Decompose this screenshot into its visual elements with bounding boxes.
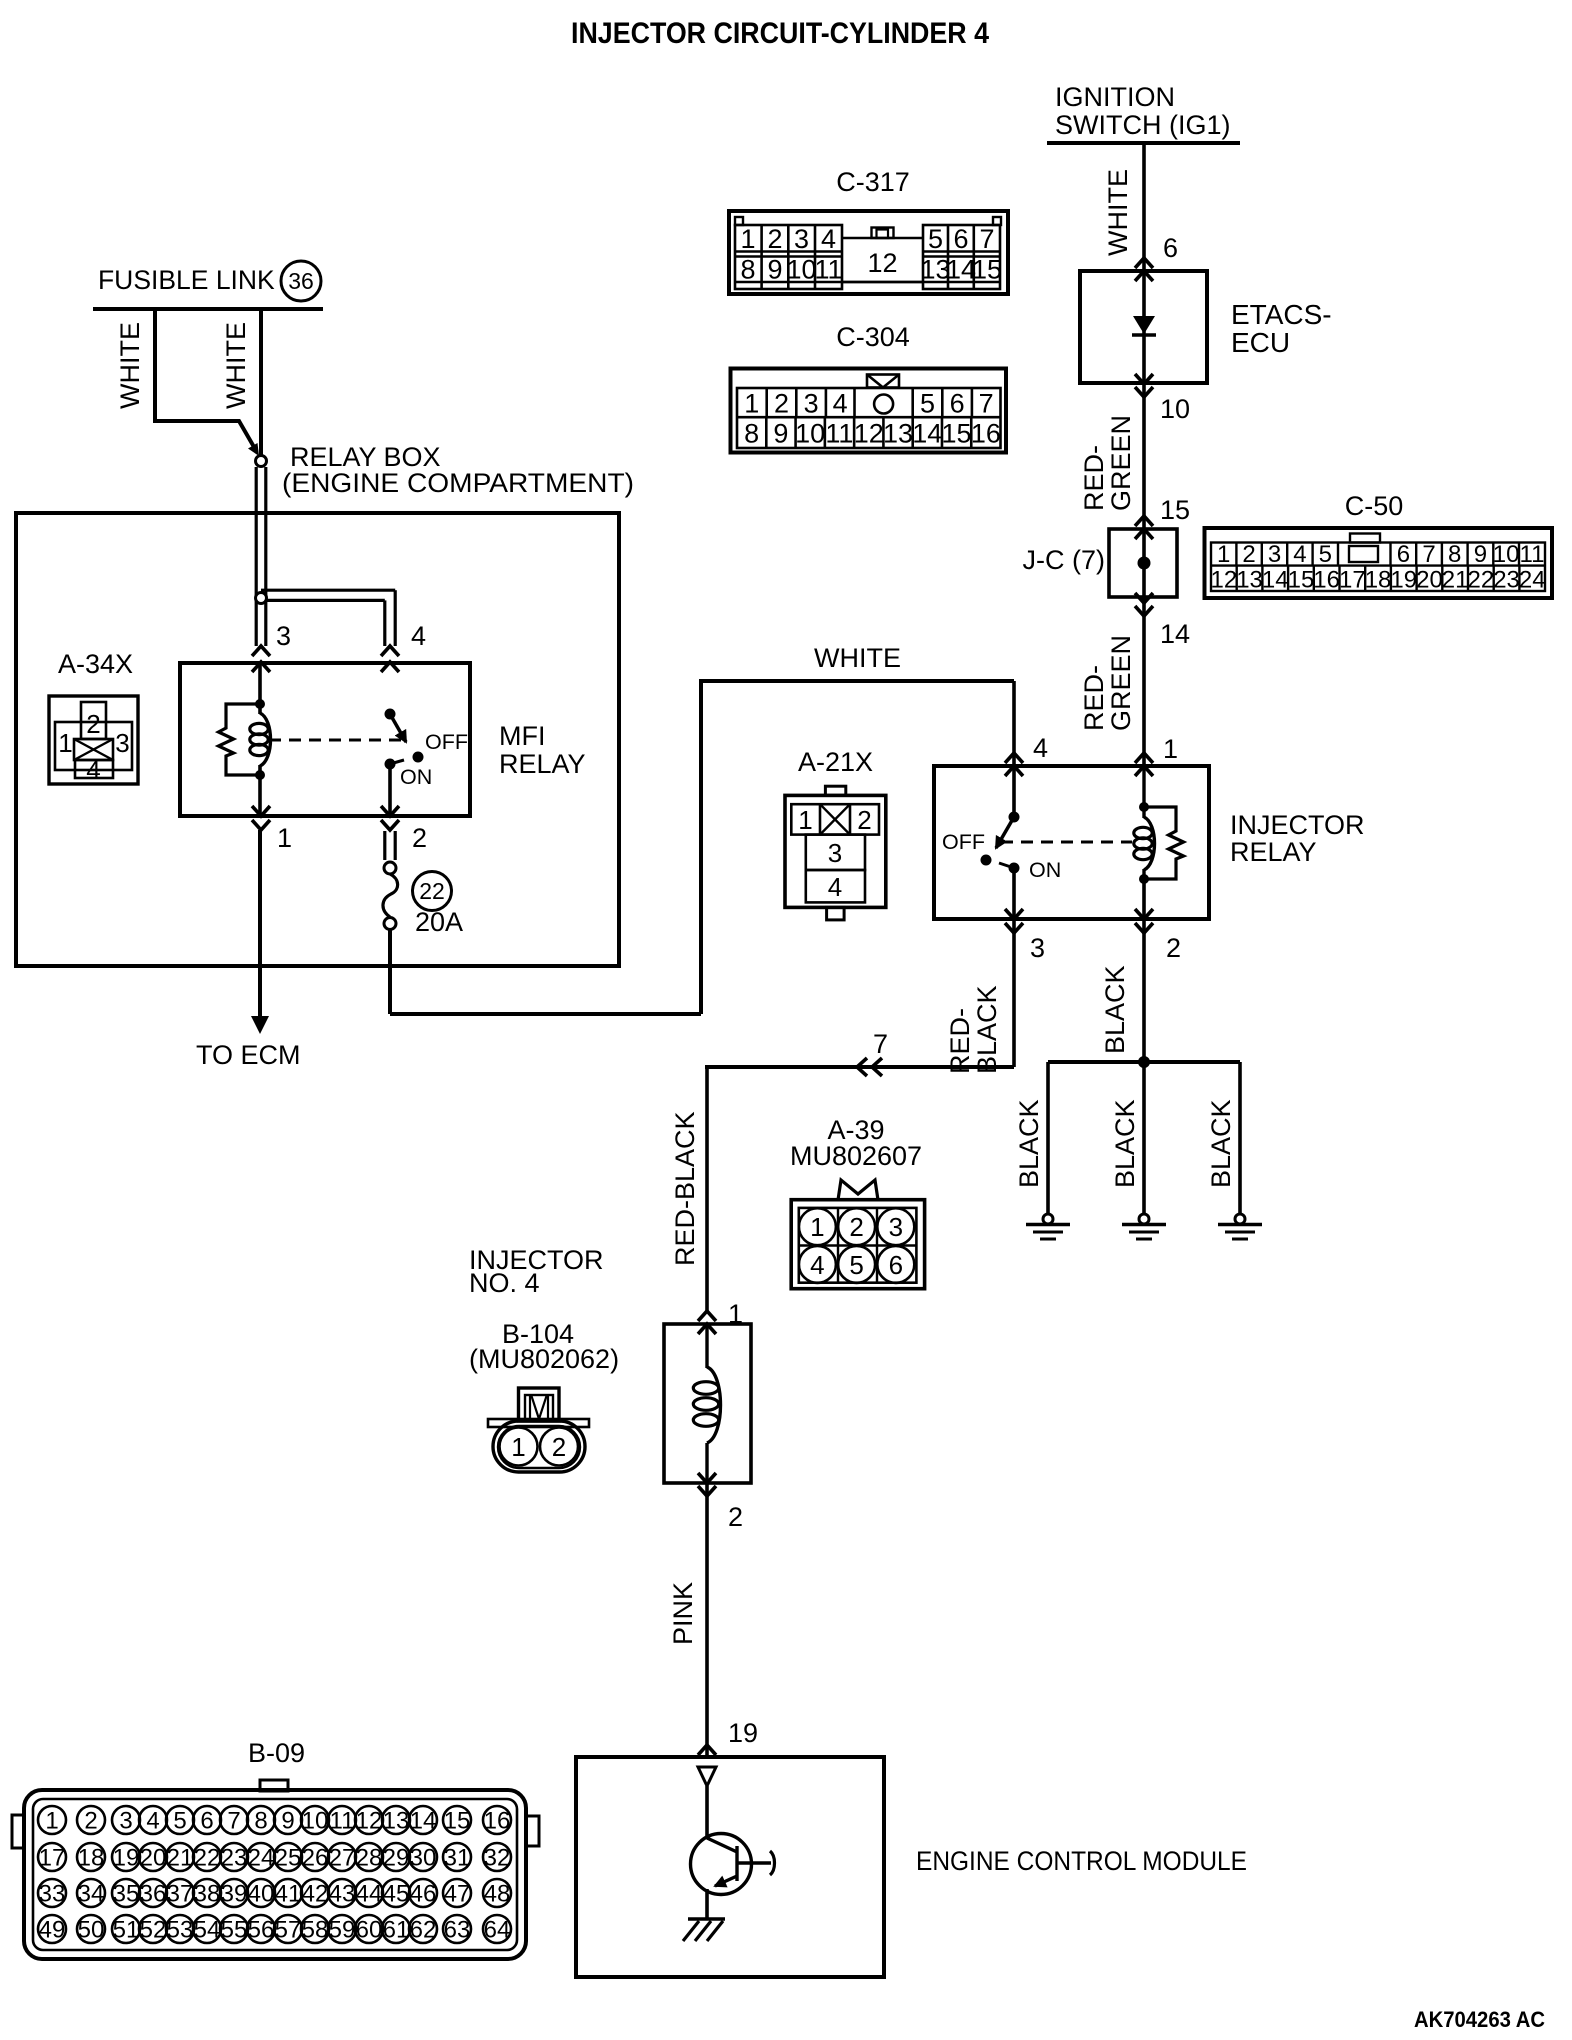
svg-text:ETACS-: ETACS- — [1231, 299, 1332, 330]
svg-text:NO. 4: NO. 4 — [469, 1268, 540, 1298]
svg-text:33: 33 — [39, 1881, 66, 1908]
svg-text:32: 32 — [484, 1845, 511, 1872]
svg-text:63: 63 — [444, 1917, 471, 1944]
svg-text:3: 3 — [1030, 933, 1045, 963]
svg-text:4: 4 — [146, 1808, 159, 1835]
svg-text:14: 14 — [1262, 567, 1289, 594]
svg-text:TO ECM: TO ECM — [196, 1040, 301, 1070]
svg-text:AK704263 AC: AK704263 AC — [1414, 2007, 1545, 2032]
svg-text:3: 3 — [1268, 541, 1281, 568]
svg-text:16: 16 — [484, 1808, 511, 1835]
svg-text:WHITE: WHITE — [115, 322, 145, 409]
svg-text:64: 64 — [484, 1917, 511, 1944]
svg-text:16: 16 — [971, 419, 1001, 449]
svg-text:FUSIBLE LINK: FUSIBLE LINK — [98, 265, 275, 295]
svg-text:1: 1 — [1217, 541, 1230, 568]
svg-text:43: 43 — [329, 1881, 356, 1908]
svg-text:1: 1 — [45, 1808, 58, 1835]
svg-text:2: 2 — [84, 1808, 97, 1835]
svg-text:8: 8 — [740, 255, 755, 285]
svg-text:2: 2 — [767, 224, 782, 254]
svg-text:4: 4 — [1293, 541, 1306, 568]
svg-text:ON: ON — [1029, 858, 1061, 882]
svg-text:18: 18 — [1365, 567, 1392, 594]
svg-text:3: 3 — [115, 728, 129, 758]
svg-text:WHITE: WHITE — [221, 322, 251, 409]
svg-text:J-C (7): J-C (7) — [1023, 545, 1106, 575]
svg-text:RELAY: RELAY — [1230, 837, 1317, 867]
svg-text:3: 3 — [828, 838, 842, 868]
svg-text:6: 6 — [200, 1808, 213, 1835]
svg-text:48: 48 — [484, 1881, 511, 1908]
svg-text:24: 24 — [248, 1845, 275, 1872]
svg-text:4: 4 — [833, 389, 848, 419]
svg-text:23: 23 — [1493, 567, 1520, 594]
svg-text:8: 8 — [254, 1808, 267, 1835]
svg-text:21: 21 — [167, 1845, 194, 1872]
svg-text:WHITE: WHITE — [1103, 169, 1133, 256]
svg-text:35: 35 — [113, 1881, 140, 1908]
svg-text:13: 13 — [1236, 567, 1263, 594]
svg-text:12: 12 — [1210, 567, 1237, 594]
svg-text:14: 14 — [912, 419, 942, 449]
svg-text:15: 15 — [972, 255, 1002, 285]
svg-text:44: 44 — [356, 1881, 383, 1908]
svg-text:(MU802062): (MU802062) — [469, 1344, 619, 1374]
svg-text:7: 7 — [1422, 541, 1435, 568]
svg-text:A-21X: A-21X — [798, 747, 873, 777]
svg-text:1: 1 — [810, 1212, 824, 1242]
svg-text:WHITE: WHITE — [814, 643, 901, 673]
svg-text:3: 3 — [119, 1808, 132, 1835]
svg-text:59: 59 — [329, 1917, 356, 1944]
svg-text:18: 18 — [78, 1845, 105, 1872]
svg-text:OFF: OFF — [425, 730, 468, 754]
svg-text:47: 47 — [444, 1881, 471, 1908]
svg-text:1: 1 — [744, 389, 759, 419]
svg-text:61: 61 — [383, 1917, 410, 1944]
svg-text:6: 6 — [1397, 541, 1410, 568]
svg-text:ECU: ECU — [1231, 327, 1290, 358]
svg-text:9: 9 — [773, 419, 788, 449]
svg-text:C-50: C-50 — [1345, 491, 1404, 521]
svg-text:1: 1 — [277, 823, 292, 853]
svg-text:SWITCH (IG1): SWITCH (IG1) — [1055, 110, 1231, 140]
svg-text:22: 22 — [419, 878, 445, 904]
svg-text:60: 60 — [356, 1917, 383, 1944]
svg-text:36: 36 — [140, 1881, 167, 1908]
svg-text:GREEN: GREEN — [1106, 635, 1136, 731]
svg-text:19: 19 — [113, 1845, 140, 1872]
svg-text:15: 15 — [444, 1808, 471, 1835]
svg-text:BLACK: BLACK — [1100, 965, 1130, 1054]
svg-text:38: 38 — [194, 1881, 221, 1908]
svg-text:RELAY: RELAY — [499, 749, 586, 779]
svg-text:2: 2 — [774, 389, 789, 419]
svg-text:41: 41 — [275, 1881, 302, 1908]
svg-text:46: 46 — [410, 1881, 437, 1908]
svg-text:5: 5 — [928, 224, 943, 254]
svg-text:IGNITION: IGNITION — [1055, 82, 1175, 112]
svg-text:INJECTOR: INJECTOR — [1230, 810, 1365, 840]
svg-text:RED-: RED- — [1079, 445, 1109, 511]
svg-text:28: 28 — [356, 1845, 383, 1872]
svg-text:4: 4 — [828, 872, 842, 902]
svg-text:ON: ON — [400, 765, 432, 789]
svg-text:20: 20 — [140, 1845, 167, 1872]
svg-text:6: 6 — [953, 224, 968, 254]
svg-text:4: 4 — [411, 621, 426, 651]
svg-text:5: 5 — [920, 389, 935, 419]
svg-text:13: 13 — [383, 1808, 410, 1835]
svg-text:3: 3 — [889, 1212, 903, 1242]
svg-text:7: 7 — [873, 1029, 888, 1059]
svg-text:53: 53 — [167, 1917, 194, 1944]
svg-text:21: 21 — [1442, 567, 1469, 594]
svg-text:11: 11 — [825, 419, 853, 449]
svg-text:16: 16 — [1313, 567, 1340, 594]
svg-text:49: 49 — [39, 1917, 66, 1944]
svg-text:6: 6 — [889, 1250, 903, 1280]
svg-text:BLACK: BLACK — [1206, 1099, 1236, 1188]
svg-text:GREEN: GREEN — [1106, 415, 1136, 511]
svg-text:14: 14 — [1160, 619, 1190, 649]
svg-text:BLACK: BLACK — [1014, 1099, 1044, 1188]
svg-text:51: 51 — [113, 1917, 140, 1944]
svg-text:4: 4 — [1033, 733, 1048, 763]
svg-text:PINK: PINK — [668, 1582, 698, 1645]
svg-text:2: 2 — [552, 1432, 566, 1462]
svg-text:OFF: OFF — [942, 830, 985, 854]
svg-text:19: 19 — [1390, 567, 1417, 594]
svg-text:BLACK: BLACK — [972, 985, 1002, 1074]
svg-text:62: 62 — [410, 1917, 437, 1944]
svg-text:20A: 20A — [415, 907, 463, 937]
svg-text:1: 1 — [798, 805, 812, 835]
svg-text:RED-: RED- — [945, 1008, 975, 1074]
svg-text:20: 20 — [1416, 567, 1443, 594]
svg-text:25: 25 — [275, 1845, 302, 1872]
svg-text:MU802607: MU802607 — [790, 1141, 922, 1171]
svg-text:10: 10 — [302, 1808, 329, 1835]
svg-text:15: 15 — [1288, 567, 1315, 594]
svg-text:30: 30 — [410, 1845, 437, 1872]
svg-text:RED-: RED- — [1079, 665, 1109, 731]
svg-text:15: 15 — [942, 419, 972, 449]
svg-text:4: 4 — [810, 1250, 824, 1280]
svg-text:12: 12 — [867, 248, 897, 278]
svg-text:2: 2 — [86, 709, 100, 739]
svg-text:54: 54 — [194, 1917, 221, 1944]
svg-text:10: 10 — [1160, 394, 1190, 424]
svg-text:4: 4 — [86, 755, 100, 785]
svg-text:37: 37 — [167, 1881, 194, 1908]
svg-text:2: 2 — [1166, 933, 1181, 963]
svg-text:17: 17 — [1339, 567, 1366, 594]
svg-text:11: 11 — [814, 255, 842, 285]
svg-text:A-34X: A-34X — [58, 649, 133, 679]
svg-text:40: 40 — [248, 1881, 275, 1908]
svg-text:45: 45 — [383, 1881, 410, 1908]
svg-text:B-09: B-09 — [248, 1738, 305, 1768]
svg-text:11: 11 — [1520, 541, 1545, 568]
svg-text:13: 13 — [883, 419, 913, 449]
svg-text:1: 1 — [740, 224, 755, 254]
svg-text:55: 55 — [221, 1917, 248, 1944]
svg-text:5: 5 — [849, 1250, 863, 1280]
svg-text:5: 5 — [1319, 541, 1332, 568]
svg-text:19: 19 — [728, 1718, 758, 1748]
svg-text:17: 17 — [39, 1845, 66, 1872]
svg-text:52: 52 — [140, 1917, 167, 1944]
svg-text:MFI: MFI — [499, 721, 546, 751]
svg-text:34: 34 — [78, 1881, 105, 1908]
svg-text:INJECTOR CIRCUIT-CYLINDER 4: INJECTOR CIRCUIT-CYLINDER 4 — [571, 17, 989, 50]
svg-text:2: 2 — [728, 1502, 743, 1532]
svg-text:12: 12 — [356, 1808, 383, 1835]
svg-text:50: 50 — [78, 1917, 105, 1944]
svg-text:6: 6 — [1163, 233, 1178, 263]
svg-text:2: 2 — [849, 1212, 863, 1242]
svg-text:26: 26 — [302, 1845, 329, 1872]
svg-text:57: 57 — [275, 1917, 302, 1944]
svg-text:56: 56 — [248, 1917, 275, 1944]
svg-text:9: 9 — [1474, 541, 1487, 568]
svg-text:1: 1 — [58, 728, 72, 758]
svg-text:7: 7 — [979, 224, 994, 254]
svg-text:2: 2 — [857, 805, 871, 835]
svg-text:27: 27 — [329, 1845, 356, 1872]
svg-text:14: 14 — [410, 1808, 437, 1835]
svg-text:C-304: C-304 — [836, 322, 910, 352]
svg-text:2: 2 — [412, 823, 427, 853]
svg-text:8: 8 — [744, 419, 759, 449]
svg-text:22: 22 — [194, 1845, 221, 1872]
svg-text:6: 6 — [950, 389, 965, 419]
svg-text:5: 5 — [173, 1808, 186, 1835]
svg-text:15: 15 — [1160, 495, 1190, 525]
svg-text:BLACK: BLACK — [1110, 1099, 1140, 1188]
svg-text:C-317: C-317 — [836, 167, 910, 197]
svg-text:24: 24 — [1519, 567, 1546, 594]
svg-text:58: 58 — [302, 1917, 329, 1944]
svg-text:3: 3 — [804, 389, 819, 419]
svg-text:29: 29 — [383, 1845, 410, 1872]
svg-text:7: 7 — [227, 1808, 240, 1835]
svg-text:9: 9 — [767, 255, 782, 285]
svg-text:7: 7 — [979, 389, 994, 419]
svg-text:11: 11 — [330, 1808, 355, 1835]
svg-text:36: 36 — [288, 268, 314, 294]
svg-text:10: 10 — [786, 255, 816, 285]
svg-text:ENGINE CONTROL MODULE: ENGINE CONTROL MODULE — [916, 1846, 1247, 1876]
svg-text:12: 12 — [854, 419, 884, 449]
svg-text:31: 31 — [444, 1845, 471, 1872]
svg-text:3: 3 — [276, 621, 291, 651]
svg-text:1: 1 — [511, 1432, 525, 1462]
svg-text:(ENGINE COMPARTMENT): (ENGINE COMPARTMENT) — [282, 468, 634, 498]
svg-text:3: 3 — [794, 224, 809, 254]
svg-text:10: 10 — [1493, 541, 1520, 568]
svg-text:RED-BLACK: RED-BLACK — [670, 1111, 700, 1266]
svg-text:1: 1 — [1163, 734, 1178, 764]
svg-text:2: 2 — [1242, 541, 1255, 568]
svg-text:39: 39 — [221, 1881, 248, 1908]
svg-text:42: 42 — [302, 1881, 329, 1908]
svg-text:22: 22 — [1467, 567, 1494, 594]
svg-text:4: 4 — [821, 224, 836, 254]
svg-text:10: 10 — [795, 419, 825, 449]
svg-text:9: 9 — [281, 1808, 294, 1835]
svg-text:23: 23 — [221, 1845, 248, 1872]
svg-text:8: 8 — [1448, 541, 1461, 568]
